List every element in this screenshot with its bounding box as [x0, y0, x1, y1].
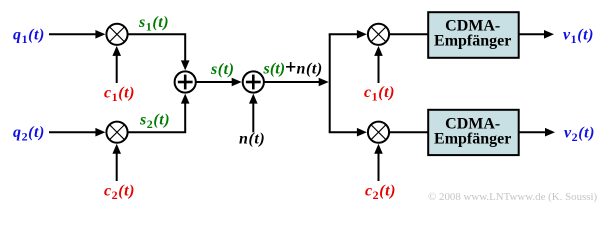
wire c2 right up into M4 [374, 144, 383, 181]
wire box1 output [519, 30, 554, 39]
svg-text:v1(t): v1(t) [563, 27, 594, 47]
svg-text:Empfänger: Empfänger [434, 131, 511, 148]
block CDMA receiver 2 [428, 110, 519, 155]
svg-text:s(t): s(t) [210, 61, 235, 78]
svg-text:q1(t): q1(t) [13, 27, 45, 47]
wire M3 output into box 1 [389, 33, 429, 35]
svg-text:s1(t): s1(t) [138, 14, 169, 34]
svg-text:s(t): s(t) [263, 61, 286, 78]
svg-text:c2(t): c2(t) [365, 183, 396, 203]
wire n(t) up into A2 [249, 94, 258, 133]
plus sign of s(t)+n(t) [286, 62, 295, 72]
block CDMA receiver 1 [428, 12, 519, 58]
svg-text:© 2008 www.LNTwww.de (K. Souss: © 2008 www.LNTwww.de (K. Soussi) [428, 191, 598, 203]
wire c2 left up into M2 [112, 144, 121, 181]
multiplier M3 [368, 24, 389, 45]
wire c1 left up into M1 [112, 46, 121, 83]
svg-text:c2(t): c2(t) [104, 183, 135, 203]
multiplier M4 [368, 122, 389, 143]
multiplier M2 [106, 122, 127, 143]
adder A2 [243, 71, 264, 92]
svg-text:n(t): n(t) [239, 131, 265, 148]
svg-text:c1(t): c1(t) [104, 85, 135, 105]
svg-text:c1(t): c1(t) [364, 84, 395, 104]
wire q2 input into M2 [49, 128, 105, 137]
wire bottom branch into M4 [329, 128, 367, 137]
svg-text:v2(t): v2(t) [564, 124, 595, 144]
wire q1 input into M1 [49, 30, 105, 39]
wire M4 output into box 2 [389, 131, 429, 133]
wire branch vertical [329, 34, 331, 132]
svg-text:Empfänger: Empfänger [434, 33, 511, 50]
wire A1 output to A2 [196, 78, 242, 87]
adder A1 [175, 71, 196, 92]
wire c1 right up into M3 [374, 46, 383, 83]
wire A2 output to branch point [264, 78, 329, 87]
svg-text:s2(t): s2(t) [139, 112, 170, 132]
svg-text:n(t): n(t) [297, 61, 323, 78]
svg-text:q2(t): q2(t) [13, 124, 45, 144]
wire M2 output up to adder A1 [128, 94, 190, 133]
multiplier M1 [106, 24, 127, 45]
wire box2 output [519, 128, 555, 137]
wire M1 output to adder A1 [128, 34, 190, 70]
wire top branch into M3 [329, 30, 367, 39]
